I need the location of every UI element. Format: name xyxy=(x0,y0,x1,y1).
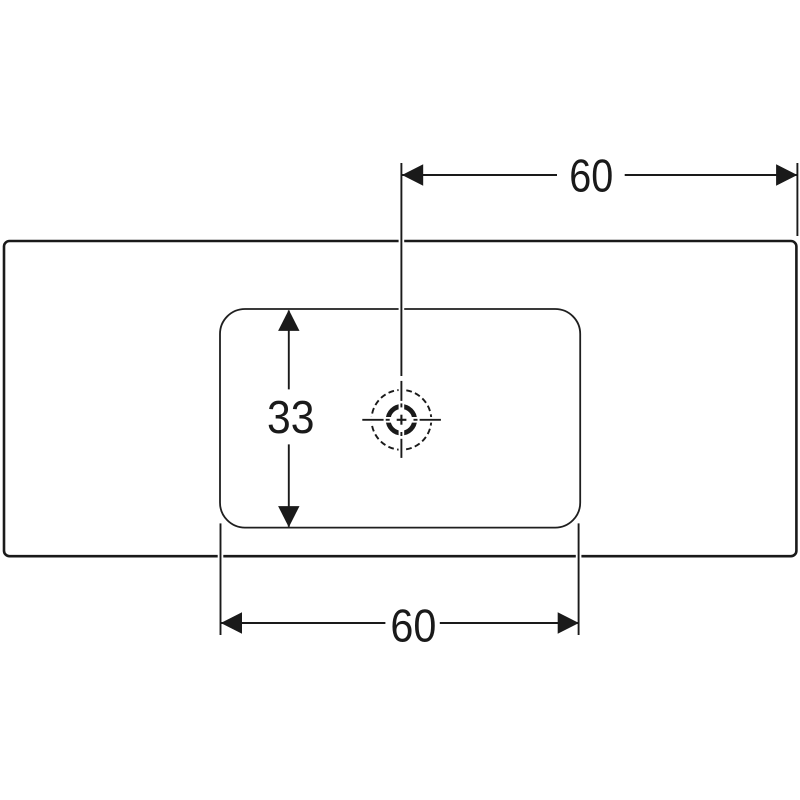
basin outline xyxy=(220,309,580,528)
top dim arrow right xyxy=(776,164,797,185)
bottom dim arrow left xyxy=(221,612,242,633)
extension line bottom left xyxy=(220,523,222,635)
top dim arrow left xyxy=(402,164,423,185)
drain center plus xyxy=(397,415,407,425)
bottom dimension line 60 xyxy=(221,622,579,624)
countertop outline xyxy=(4,241,796,556)
white casings for centerlines and extension lines xyxy=(221,163,579,635)
vertical centerline (drain axis / top dim extension) xyxy=(400,163,402,458)
extension line bottom right xyxy=(578,523,580,635)
svg-text:33: 33 xyxy=(267,391,315,443)
33 arrow down xyxy=(278,506,299,527)
drain dashed circle xyxy=(372,390,432,450)
svg-text:60: 60 xyxy=(569,149,613,201)
horizontal centerline of drain xyxy=(362,419,441,421)
top dimension line 60 xyxy=(402,174,797,176)
extension line top right xyxy=(796,163,798,236)
drain ring xyxy=(388,407,415,434)
bottom dim arrow right xyxy=(558,612,579,633)
33 arrow up xyxy=(278,310,299,331)
svg-text:60: 60 xyxy=(390,600,436,652)
33 dimension line xyxy=(288,311,290,527)
